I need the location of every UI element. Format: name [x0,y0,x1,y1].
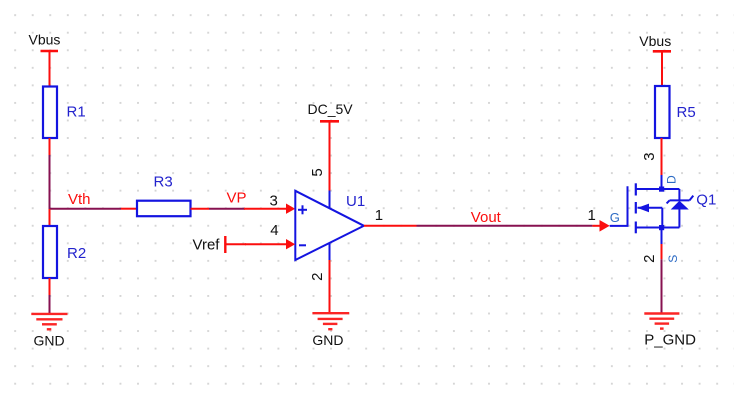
designator Q1 [696,192,716,209]
pin 1 of U1 [364,207,417,226]
power port Vbus (left) [29,32,61,52]
port Vref [193,236,226,254]
pin 1 of Q1 gate (with arrow) [588,207,610,231]
net label Vth [68,191,91,208]
pin number 3 (Q1) [641,152,658,160]
net label Vout [471,209,502,226]
wire DC_5V to U1 pin 5 [329,121,331,190]
svg-text:D: D [665,175,679,184]
svg-text:3: 3 [270,193,278,210]
ground GND (left) [31,314,67,348]
resistor R5 [655,86,696,138]
power port DC_5V [308,101,354,122]
body diode of Q1 [667,189,694,228]
svg-text:4: 4 [270,222,278,239]
wire Q1 source to P_GND [661,244,663,313]
svg-text:S: S [666,255,680,263]
svg-text:GND: GND [34,332,65,348]
resistor R3 [137,173,191,216]
wire R3 to U1 pin 3 [191,208,246,210]
transistor Q1 drain bar [636,174,680,189]
svg-text:Vref: Vref [193,237,221,254]
resistor R1 [43,87,86,139]
wire node Vth to R3 [49,208,138,210]
pin number 5 (U1) [309,168,326,176]
ground GND (middle) [312,313,349,348]
wire Vbus to R1 [49,51,51,87]
junction dot (drain) [659,187,664,192]
svg-text:DC_5V: DC_5V [308,101,354,117]
svg-text:G: G [610,210,620,225]
wire Vout [417,225,602,227]
svg-text:Vbus: Vbus [639,33,671,49]
wire R1 to node Vth [49,138,51,210]
svg-text:R5: R5 [677,104,696,121]
svg-text:Vout: Vout [471,209,502,226]
svg-text:Vth: Vth [68,191,91,208]
svg-text:2: 2 [641,255,658,263]
ground P_GND [644,314,696,349]
pin number 2 (Q1) [641,255,658,263]
transistor Q1 body bar with arrow [637,204,662,228]
net label VP [227,189,247,206]
wire Vref to U1 pin 4 [226,243,246,245]
transistor Q1 channel segments [635,183,637,233]
svg-text:VP: VP [227,189,247,206]
junction dot (source) [659,225,664,230]
wire R5 to Q1 drain (pin 3) [661,138,663,175]
svg-text:U1: U1 [346,193,365,210]
wire Vbus to R5 [661,51,663,86]
svg-text:5: 5 [309,168,326,176]
resistor R2 [43,209,86,295]
pin number 2 (U1) [309,273,326,281]
svg-text:1: 1 [375,207,383,224]
svg-text:R3: R3 [154,173,173,190]
svg-text:3: 3 [641,152,658,160]
svg-text:1: 1 [588,207,596,224]
svg-text:Q1: Q1 [696,192,716,209]
svg-text:R2: R2 [67,245,86,262]
svg-text:GND: GND [312,332,343,348]
svg-text:2: 2 [309,273,326,281]
svg-text:R1: R1 [67,104,86,121]
wire R2 to GND [49,295,51,313]
svg-text:P_GND: P_GND [644,331,696,348]
power port Vbus (right) [639,33,671,52]
op-amp U1 [295,191,365,261]
pin 4 of U1 (with arrow) [245,222,295,249]
transistor Q1 (NMOS) gate [610,186,628,226]
transistor Q1 source bar [636,228,680,263]
pin 3 of U1 (with arrow) [244,193,295,214]
wire U1 pin 2 to GND [329,260,331,313]
svg-text:Vbus: Vbus [29,32,61,48]
